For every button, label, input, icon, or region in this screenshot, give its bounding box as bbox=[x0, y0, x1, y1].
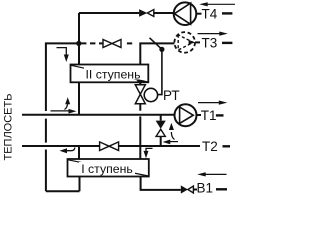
svg-text:Т3: Т3 bbox=[202, 35, 218, 50]
wire PT column below supply to I stage top bbox=[139, 116, 141, 159]
wire riser x=79 return to I stage top bbox=[78, 146, 80, 159]
svg-text:ТЕПЛОСЕТЬ: ТЕПЛОСЕТЬ bbox=[3, 94, 15, 161]
flow arrow above T1 (right) bbox=[198, 101, 227, 105]
wire I stage bottom to B1 corner bbox=[141, 177, 181, 190]
junction dot node A bbox=[76, 41, 81, 46]
heat exchanger stage I bbox=[68, 159, 149, 177]
gate valve on bypass bbox=[103, 40, 121, 48]
pump T3 (reserve, dashed) bbox=[174, 32, 195, 53]
wire B1 stub to label bbox=[193, 189, 197, 191]
svg-text:Т2: Т2 bbox=[202, 139, 218, 154]
wire T3 corner to pump bbox=[140, 43, 174, 64]
svg-text:I ступень: I ступень bbox=[81, 162, 133, 176]
wire dash after T4 label bbox=[222, 12, 232, 14]
wire dash after T2 label bbox=[223, 145, 231, 147]
gate valve on return line bbox=[100, 142, 119, 151]
wire dash after T3 label bbox=[222, 42, 232, 44]
wire impulse line to PT regulator bbox=[157, 49, 162, 94]
wire T4 stub to label bbox=[196, 13, 201, 15]
svg-text:II ступень: II ступень bbox=[85, 68, 140, 82]
svg-text:Т1: Т1 bbox=[201, 108, 217, 123]
wire supply T1 main segment bbox=[22, 114, 175, 116]
wire dashed bypass bbox=[81, 42, 103, 44]
flow arrow into stage I (down) bbox=[144, 148, 153, 158]
wire return T2 main segment bbox=[22, 145, 100, 147]
wire PT valve to supply crossing (gap above supply) bbox=[139, 104, 141, 111]
flow arrowhead on stage II outlet (down onto PT valve) bbox=[137, 80, 145, 85]
wire supply T1 stub after pump bbox=[196, 114, 201, 116]
svg-text:Т4: Т4 bbox=[202, 6, 218, 21]
wire left riser x=46 with top corner (breaks at supply and return crossings) bbox=[46, 42, 77, 191]
wire T4 line right bbox=[154, 12, 174, 14]
flow arrow above B1 (left) bbox=[197, 172, 226, 176]
flow arrow into stage II (down) bbox=[57, 48, 69, 62]
check valve on T4 line bbox=[139, 9, 154, 17]
actuator PT circle bbox=[144, 88, 157, 101]
svg-text:РТ: РТ bbox=[163, 88, 180, 103]
wire T3 stub to label bbox=[195, 41, 200, 43]
pump T4 (circulation pump) bbox=[174, 2, 197, 25]
control valve PT (two triangles) bbox=[135, 85, 145, 104]
bypass with check valve between supply and return bbox=[156, 115, 166, 146]
check valve on B1 line bbox=[181, 185, 194, 193]
svg-text:В1: В1 bbox=[197, 180, 214, 195]
wire dash after T1 label bbox=[216, 114, 224, 116]
wire dashed bypass right bbox=[127, 42, 132, 44]
flow arrow above T4 (left) bbox=[199, 2, 235, 6]
wire riser x=79 stage II bottom to supply bbox=[78, 83, 80, 115]
wire dash after B1 label bbox=[216, 188, 227, 190]
wire return T2 right segment bbox=[118, 145, 200, 147]
flow arrow up from return into pump suction bbox=[163, 123, 178, 145]
pump T1 (mixing pump) bbox=[175, 104, 197, 126]
flow arrow on supply (right + up branch) bbox=[51, 97, 77, 113]
junction dot sensor node bbox=[159, 47, 164, 52]
flow arrow on return (left, bent) bbox=[60, 148, 75, 154]
wire T4 line left bbox=[79, 12, 139, 14]
flow arrow above T3 (right) bbox=[198, 32, 228, 36]
wire bottom link bbox=[46, 190, 80, 192]
heat exchanger stage II bbox=[71, 65, 149, 83]
wire riser x=79 lower (I stage bottom to bottom link) bbox=[79, 177, 81, 192]
temperature sensor tap (diagonal) bbox=[150, 38, 162, 50]
wire riser x=79 T4 corner to stage II top bbox=[78, 13, 80, 65]
